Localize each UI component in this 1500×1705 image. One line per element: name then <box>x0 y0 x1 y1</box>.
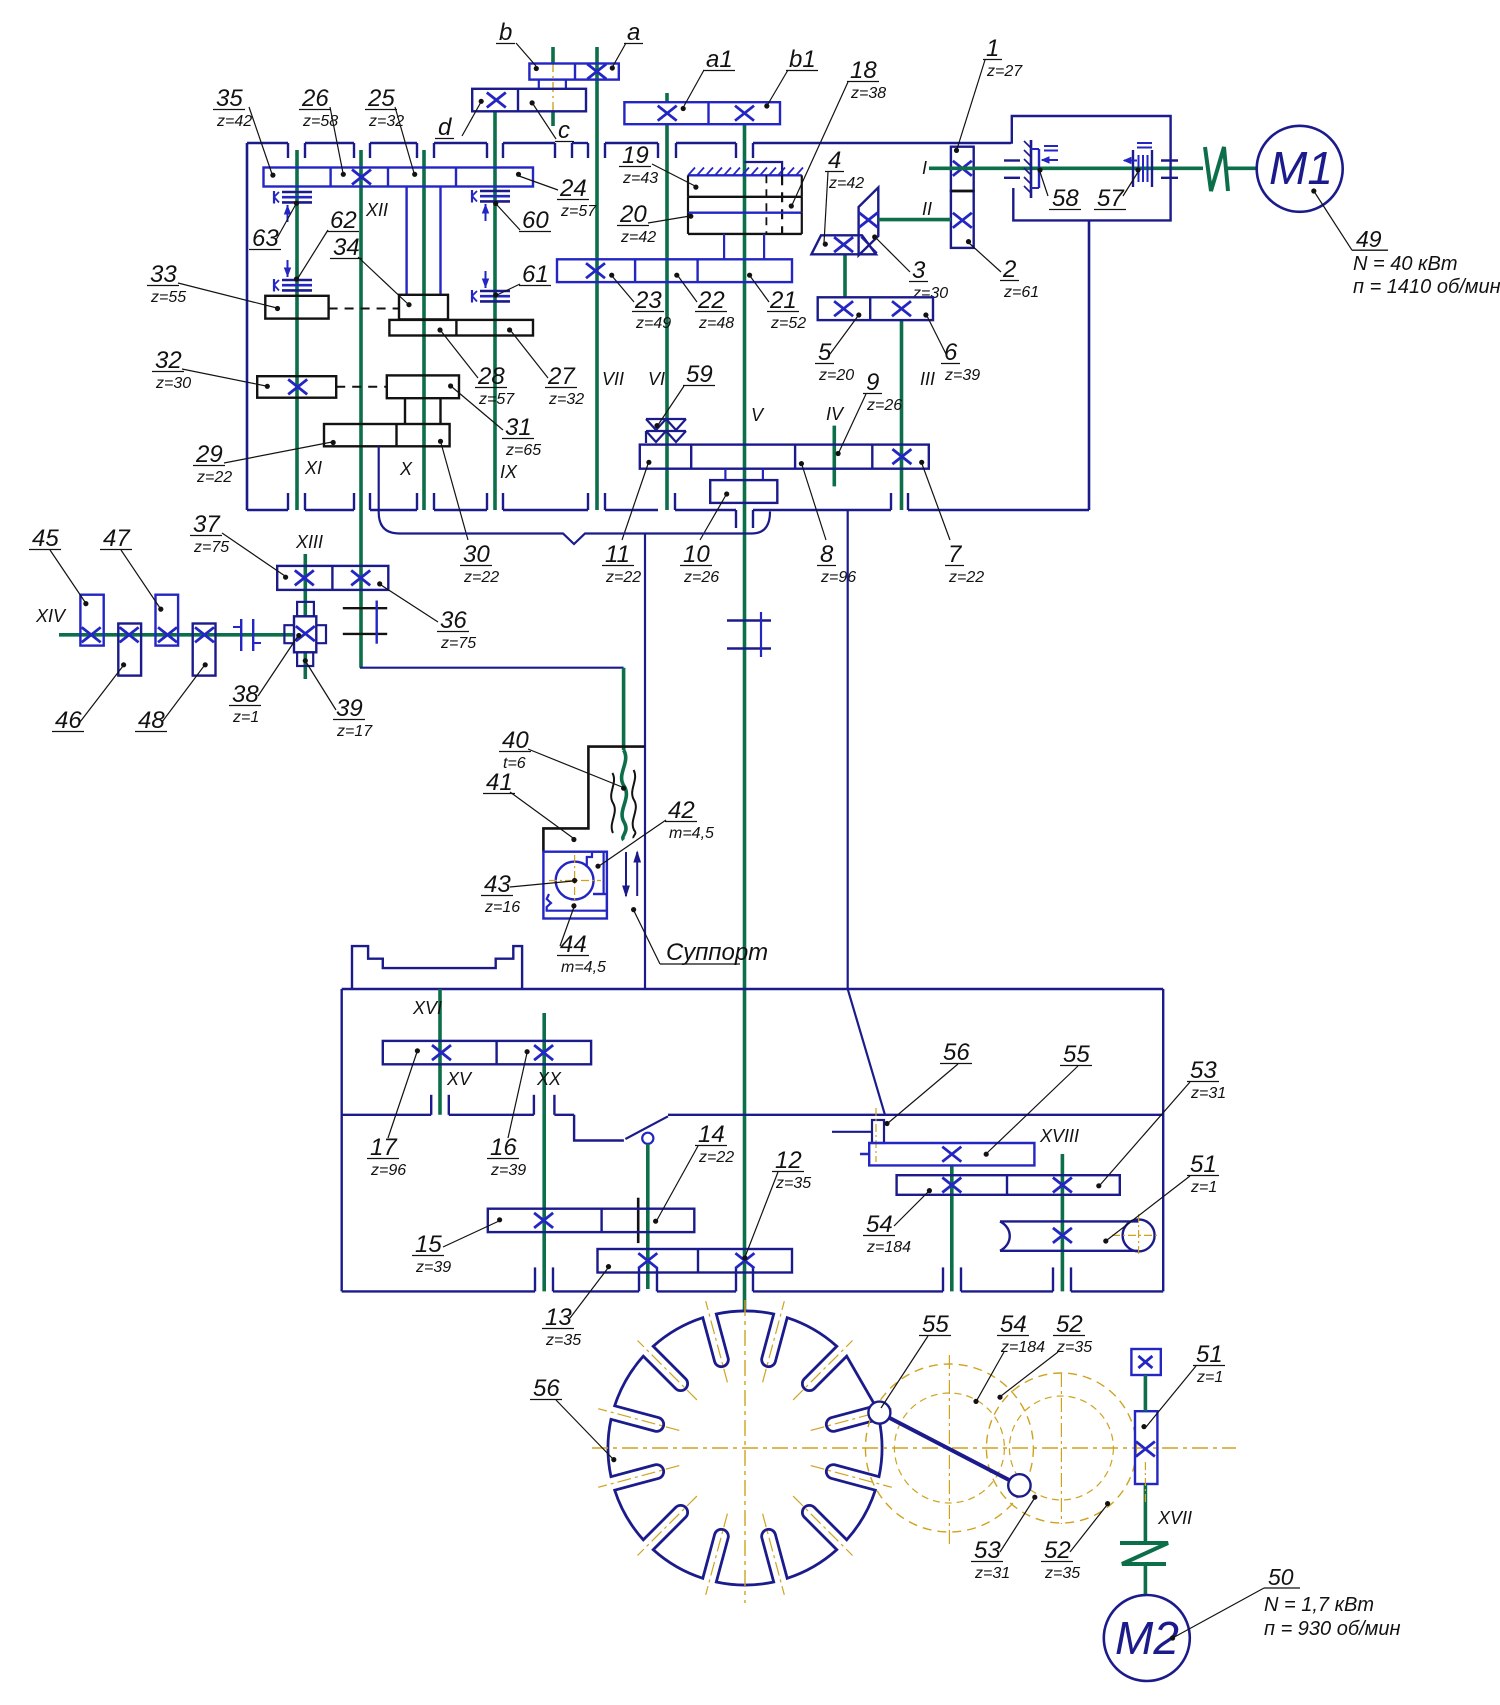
svg-text:6: 6 <box>944 339 958 366</box>
svg-text:XX: XX <box>536 1069 562 1089</box>
svg-text:XIV: XIV <box>35 606 67 626</box>
pitch circles 52 (z=35) <box>986 1373 1136 1524</box>
motor M1 <box>1257 126 1343 212</box>
svg-text:z=39: z=39 <box>944 367 980 384</box>
label 9 <box>836 369 903 456</box>
svg-text:z=61: z=61 <box>1003 284 1039 301</box>
svg-text:58: 58 <box>1052 185 1079 212</box>
svg-text:z=35: z=35 <box>1044 1565 1080 1582</box>
label shaft IX <box>500 462 518 482</box>
svg-text:55: 55 <box>922 1311 949 1338</box>
label shaft III <box>920 369 935 389</box>
svg-text:z=42: z=42 <box>216 113 252 130</box>
svg-text:IV: IV <box>826 404 845 424</box>
hub of gear 10 <box>725 469 763 480</box>
svg-text:20: 20 <box>619 201 647 228</box>
svg-text:52: 52 <box>1056 1311 1083 1338</box>
gear 20 (z=42) <box>688 213 802 234</box>
svg-text:z=17: z=17 <box>336 723 373 740</box>
coupling on XIV <box>233 619 261 651</box>
svg-text:II: II <box>922 199 932 219</box>
clamp 44 <box>547 894 607 911</box>
svg-text:z=32: z=32 <box>548 391 584 408</box>
svg-text:30: 30 <box>463 541 490 568</box>
spline dashes of 18 <box>766 175 782 234</box>
svg-text:XI: XI <box>304 458 322 478</box>
svg-text:z=22: z=22 <box>196 469 232 486</box>
svg-text:57: 57 <box>1097 185 1125 212</box>
shaft (clutch shaft, left) vertical <box>295 150 299 510</box>
label Суппорт <box>631 907 768 966</box>
svg-text:28: 28 <box>477 363 505 390</box>
gear 2 (z=61) <box>951 191 974 248</box>
lever with pivot <box>625 1116 668 1144</box>
svg-text:Суппорт: Суппорт <box>666 939 768 966</box>
label 49 and M1 data <box>1311 188 1500 298</box>
svg-text:26: 26 <box>301 85 329 112</box>
svg-text:z=75: z=75 <box>440 635 476 652</box>
label 62 <box>294 207 359 282</box>
svg-text:z=96: z=96 <box>370 1162 406 1179</box>
label 22 <box>674 273 734 332</box>
svg-text:z=1: z=1 <box>232 709 259 726</box>
label 53 (pin) <box>971 1495 1037 1582</box>
shaft IV stub <box>832 426 836 487</box>
gear row 17-16 <box>383 1041 591 1064</box>
bed profile <box>352 946 522 989</box>
svg-text:z=184: z=184 <box>866 1239 911 1256</box>
gear block 34 <box>399 295 448 320</box>
label shaft XVII <box>1157 1508 1192 1528</box>
shaft III vertical (x901) <box>900 320 904 510</box>
centerline at worm 51 <box>1144 1462 1146 1505</box>
label shaft XII <box>365 200 388 220</box>
svg-text:62: 62 <box>330 207 357 234</box>
svg-text:60: 60 <box>522 207 549 234</box>
label 6 <box>923 312 980 384</box>
label 1 <box>954 35 1023 153</box>
svg-text:z=38: z=38 <box>850 85 886 102</box>
label shaft XX <box>536 1069 562 1089</box>
svg-text:z=22: z=22 <box>463 569 499 586</box>
svg-text:18: 18 <box>850 57 877 84</box>
support slide block <box>543 852 607 919</box>
svg-text:61: 61 <box>522 261 549 288</box>
label a <box>610 19 643 71</box>
label 8 <box>799 461 856 586</box>
bearing marks left of housing <box>1004 161 1020 178</box>
label shaft XIII <box>295 532 323 552</box>
friction clutch-brake 58 <box>1024 140 1058 198</box>
crank arm 55 <box>879 1413 1019 1486</box>
svg-text:b1: b1 <box>789 46 816 73</box>
label 28 <box>437 327 515 408</box>
label 31 <box>448 383 541 459</box>
svg-text:z=43: z=43 <box>622 170 658 187</box>
friction clutch 61 <box>472 271 510 303</box>
svg-text:N = 40 кВт: N = 40 кВт <box>1353 253 1457 275</box>
svg-text:25: 25 <box>367 85 395 112</box>
label b1 <box>764 46 818 109</box>
gear box 51 top (bevel) <box>1131 1349 1160 1375</box>
elastic coupling of M2 <box>1120 1543 1168 1564</box>
label shaft XVIII <box>1039 1126 1079 1146</box>
label shaft X <box>399 459 413 479</box>
label shaft VII <box>602 369 624 389</box>
label 46 <box>52 662 126 734</box>
svg-text:40: 40 <box>502 727 529 754</box>
svg-text:23: 23 <box>634 287 662 314</box>
label 33 <box>147 261 280 311</box>
label shaft XI <box>304 458 322 478</box>
centerline sleeve axis x553 <box>552 62 554 112</box>
shaft x424 vertical <box>422 150 426 510</box>
svg-text:d: d <box>438 114 452 141</box>
sliding gear 18 (z=38) <box>688 197 802 213</box>
svg-text:z=35: z=35 <box>1056 1339 1092 1356</box>
label 59 <box>654 361 715 428</box>
label 29 <box>193 440 336 486</box>
svg-text:z=31: z=31 <box>974 1565 1010 1582</box>
label 19 <box>619 142 699 190</box>
label 12 <box>742 1147 811 1261</box>
svg-text:4: 4 <box>828 147 841 174</box>
svg-text:35: 35 <box>216 85 243 112</box>
worm 51 in box <box>1000 1214 1160 1257</box>
gear row 54-53 <box>897 1175 1120 1195</box>
label 34 <box>330 234 412 307</box>
label 54 (gear) <box>863 1188 932 1256</box>
label 4 <box>823 147 865 247</box>
sleeve 31 to 29-30 <box>405 398 441 424</box>
svg-text:z=26: z=26 <box>683 569 719 586</box>
bevel gear 4 (z=42) <box>811 235 876 254</box>
svg-text:z=42: z=42 <box>828 175 864 192</box>
label 53 (gear) <box>1096 1057 1226 1188</box>
sleeve gear25 to block34 <box>407 187 441 296</box>
svg-text:z=48: z=48 <box>698 315 734 332</box>
hub below gear 30 <box>378 446 380 512</box>
gear row 29-30 <box>324 424 450 446</box>
svg-text:17: 17 <box>370 1134 398 1161</box>
rack 42 <box>587 852 604 894</box>
label 42 <box>595 797 714 869</box>
svg-text:M2: M2 <box>1115 1612 1179 1664</box>
svg-text:14: 14 <box>698 1121 725 1148</box>
pawl 56 <box>832 1108 884 1162</box>
shaft XVI vertical <box>438 989 442 1115</box>
svg-text:36: 36 <box>440 607 467 634</box>
svg-text:z=52: z=52 <box>770 315 806 332</box>
svg-text:10: 10 <box>683 541 710 568</box>
label shaft I <box>922 158 927 178</box>
label 55 (crank) <box>881 1311 951 1408</box>
svg-text:8: 8 <box>820 541 834 568</box>
gear row 28-27 <box>389 320 533 336</box>
sleeve top of 18 <box>745 162 783 175</box>
gear 1 (z=27) <box>951 147 974 191</box>
gear row 15-14 <box>488 1209 695 1232</box>
wire diagonal to pawl 56 <box>848 989 885 1115</box>
svg-text:19: 19 <box>622 142 649 169</box>
gear 45 <box>80 595 103 646</box>
gear 48 <box>193 624 216 676</box>
svg-text:7: 7 <box>948 541 963 568</box>
svg-text:z=75: z=75 <box>193 539 229 556</box>
wire x847.7 down <box>847 510 849 989</box>
svg-text:z=39: z=39 <box>415 1259 451 1276</box>
label shaft V <box>751 405 765 425</box>
label 25 <box>365 85 417 177</box>
clutch housing box <box>1012 116 1171 220</box>
gear row 35-26-25-24 <box>264 168 534 187</box>
svg-text:z=35: z=35 <box>775 1175 811 1192</box>
jaw coupling on shaft V <box>727 612 771 657</box>
label 30 <box>438 439 499 586</box>
label 45 <box>29 525 89 606</box>
label 56 (wheel) <box>530 1375 616 1462</box>
label 3 <box>872 234 948 302</box>
svg-text:9: 9 <box>866 369 879 396</box>
svg-text:z=57: z=57 <box>560 203 597 220</box>
label 14 <box>653 1121 734 1224</box>
label 35 <box>213 85 276 178</box>
svg-text:59: 59 <box>686 361 713 388</box>
label shaft II <box>922 199 932 219</box>
svg-text:47: 47 <box>103 525 131 552</box>
label 41 <box>483 769 577 842</box>
friction clutch 60 <box>472 190 510 221</box>
leadscrew to support <box>622 668 627 840</box>
svg-text:5: 5 <box>818 339 832 366</box>
shaft XVII <box>1144 1375 1148 1596</box>
label 60 <box>493 201 551 234</box>
svg-text:IX: IX <box>500 462 518 482</box>
wire XIII to support <box>360 667 624 669</box>
svg-text:z=184: z=184 <box>1000 1339 1045 1356</box>
label 26 <box>299 85 346 177</box>
svg-text:z=49: z=49 <box>635 315 671 332</box>
friction clutch 63 <box>274 191 312 222</box>
label 20 <box>617 201 693 246</box>
feed box outline <box>342 989 1163 1291</box>
ratchet 59 <box>646 419 686 443</box>
shaft I horizontal <box>929 167 1257 171</box>
shaft V main vertical <box>743 124 747 1311</box>
svg-text:39: 39 <box>336 695 363 722</box>
svg-text:z=20: z=20 <box>818 367 854 384</box>
shaft XVIII vertical <box>1061 1154 1065 1291</box>
svg-text:z=96: z=96 <box>820 569 856 586</box>
support bracket outline <box>543 747 644 852</box>
svg-text:46: 46 <box>55 707 82 734</box>
svg-text:V: V <box>751 405 765 425</box>
svg-text:N = 1,7 кВт: N = 1,7 кВт <box>1264 1594 1374 1616</box>
gearbox housing (headstock) outline <box>247 143 1089 528</box>
label 38 <box>229 633 301 726</box>
svg-text:48: 48 <box>138 707 165 734</box>
gear 46 <box>118 624 141 676</box>
label 56 (pawl) <box>884 1039 972 1126</box>
label 10 <box>680 491 729 586</box>
svg-text:49: 49 <box>1356 226 1382 252</box>
label 2 <box>966 239 1039 301</box>
gear row 11-V-8-7 <box>640 445 929 469</box>
label 18 <box>789 57 887 209</box>
svg-text:51: 51 <box>1196 1341 1223 1368</box>
svg-text:M1: M1 <box>1269 142 1333 194</box>
label 48 <box>135 662 208 734</box>
svg-text:53: 53 <box>1190 1057 1217 1084</box>
geneva slot centerlines <box>598 1301 892 1595</box>
wire x645 down to feed box <box>644 533 646 989</box>
svg-text:z=57: z=57 <box>478 391 515 408</box>
dashed link 32-31 <box>336 386 387 388</box>
geneva centerlines <box>592 1300 1236 1603</box>
gear 47 <box>156 595 179 646</box>
svg-text:XIII: XIII <box>295 532 323 552</box>
motor M2 <box>1104 1595 1190 1681</box>
svg-text:37: 37 <box>193 511 221 538</box>
label 7 <box>919 460 984 586</box>
partition ledge <box>342 1095 1163 1141</box>
svg-text:z=35: z=35 <box>545 1332 581 1349</box>
sleeve b to c <box>539 80 566 89</box>
svg-text:55: 55 <box>1063 1041 1090 1068</box>
svg-text:z=42: z=42 <box>620 229 656 246</box>
label 37 <box>190 511 288 580</box>
shaft x952 vertical <box>950 1165 954 1291</box>
svg-text:z=16: z=16 <box>484 899 520 916</box>
svg-text:z=39: z=39 <box>490 1162 526 1179</box>
svg-text:27: 27 <box>547 363 576 390</box>
dashed link 33-34 <box>329 308 399 310</box>
svg-text:a1: a1 <box>706 46 733 73</box>
svg-text:43: 43 <box>484 871 511 898</box>
label 36 <box>377 581 476 652</box>
svg-text:52: 52 <box>1044 1537 1071 1564</box>
label 32 <box>152 347 270 392</box>
svg-text:z=22: z=22 <box>948 569 984 586</box>
label shaft IV <box>826 404 845 424</box>
svg-text:c: c <box>558 117 570 144</box>
svg-text:z=55: z=55 <box>150 289 186 306</box>
label shaft VI <box>648 369 665 389</box>
label b <box>496 19 539 71</box>
geneva wheel 56 <box>608 1311 882 1585</box>
crank pin (in slot) <box>868 1402 890 1424</box>
friction clutch 57 <box>1124 143 1152 187</box>
rack rail 19 (z=43) <box>688 168 803 197</box>
label 24 <box>516 172 597 220</box>
gear 32 <box>257 376 336 398</box>
gear pair d-c row <box>472 89 586 112</box>
shaft IX vertical (x495) <box>493 111 497 510</box>
svg-text:III: III <box>920 369 935 389</box>
svg-text:a: a <box>627 19 640 46</box>
svg-text:56: 56 <box>943 1039 970 1066</box>
svg-text:z=26: z=26 <box>866 397 902 414</box>
svg-text:m=4,5: m=4,5 <box>561 959 606 976</box>
label 50 and M2 data <box>1170 1564 1401 1641</box>
svg-text:z=30: z=30 <box>155 375 191 392</box>
svg-text:56: 56 <box>533 1375 560 1402</box>
label shaft XVI <box>412 998 442 1018</box>
shaft XX vertical <box>542 1013 546 1291</box>
feed arrows <box>623 852 641 896</box>
label 52 (pitch lower) <box>1041 1501 1110 1582</box>
shaft XIII vertical <box>303 554 307 679</box>
wavy flank lines 40 <box>611 770 636 838</box>
label 54 (pitch) <box>973 1311 1045 1404</box>
svg-text:X: X <box>399 459 413 479</box>
shaft VI vertical (x667) <box>665 93 669 510</box>
label 51 (worm) <box>1103 1151 1219 1244</box>
svg-text:32: 32 <box>155 347 182 374</box>
svg-text:п = 1410 об/мин: п = 1410 об/мин <box>1353 276 1500 298</box>
svg-text:XVII: XVII <box>1157 1508 1192 1528</box>
label 61 <box>493 261 551 298</box>
label 43 <box>481 871 577 916</box>
svg-text:z=30: z=30 <box>912 285 948 302</box>
svg-text:11: 11 <box>605 541 630 568</box>
svg-text:51: 51 <box>1190 1151 1217 1178</box>
gear 10 (z=26) <box>710 480 777 503</box>
svg-text:z=1: z=1 <box>1196 1369 1223 1386</box>
svg-text:VI: VI <box>648 369 665 389</box>
svg-text:XVIII: XVIII <box>1039 1126 1079 1146</box>
svg-text:z=65: z=65 <box>505 442 541 459</box>
wire brace below gearbox <box>379 512 770 545</box>
label 55 (gear) <box>984 1041 1092 1157</box>
label 21 <box>747 273 806 332</box>
centerline main axis x745 top <box>744 152 746 292</box>
svg-text:1: 1 <box>986 35 999 62</box>
jaw coupling 36 on shaft XII <box>343 601 387 644</box>
svg-text:VII: VII <box>602 369 624 389</box>
gear 43 (z=16) <box>549 855 601 907</box>
svg-text:z=27: z=27 <box>986 63 1023 80</box>
svg-text:XVI: XVI <box>412 998 442 1018</box>
svg-text:29: 29 <box>195 441 223 468</box>
gear row 13-12 <box>598 1249 793 1273</box>
svg-text:50: 50 <box>1268 1564 1294 1590</box>
hub 20 to 21 <box>724 234 764 260</box>
svg-text:z=22: z=22 <box>605 569 641 586</box>
svg-text:z=22: z=22 <box>698 1149 734 1166</box>
svg-text:24: 24 <box>559 175 587 202</box>
label 5 <box>815 312 861 384</box>
svg-text:15: 15 <box>415 1231 442 1258</box>
svg-text:16: 16 <box>490 1134 517 1161</box>
label c <box>530 100 575 144</box>
svg-text:33: 33 <box>150 261 177 288</box>
svg-text:I: I <box>922 158 927 178</box>
worm 51 (z=1) vertical <box>1135 1411 1157 1484</box>
label 47 <box>100 525 163 612</box>
label 58 <box>1037 167 1081 212</box>
pitch circles 54 (z=184) <box>865 1355 1033 1545</box>
label 17 <box>367 1048 420 1179</box>
gear row 23-22-21 <box>557 259 792 282</box>
label 11 <box>602 460 652 586</box>
shaft x648 vertical <box>646 1144 650 1289</box>
shaft of bevel 4 (x845) <box>843 254 847 298</box>
label 15 <box>412 1217 502 1276</box>
svg-text:m=4,5: m=4,5 <box>669 825 714 842</box>
svg-text:54: 54 <box>866 1211 893 1238</box>
label 57 <box>1094 167 1141 212</box>
